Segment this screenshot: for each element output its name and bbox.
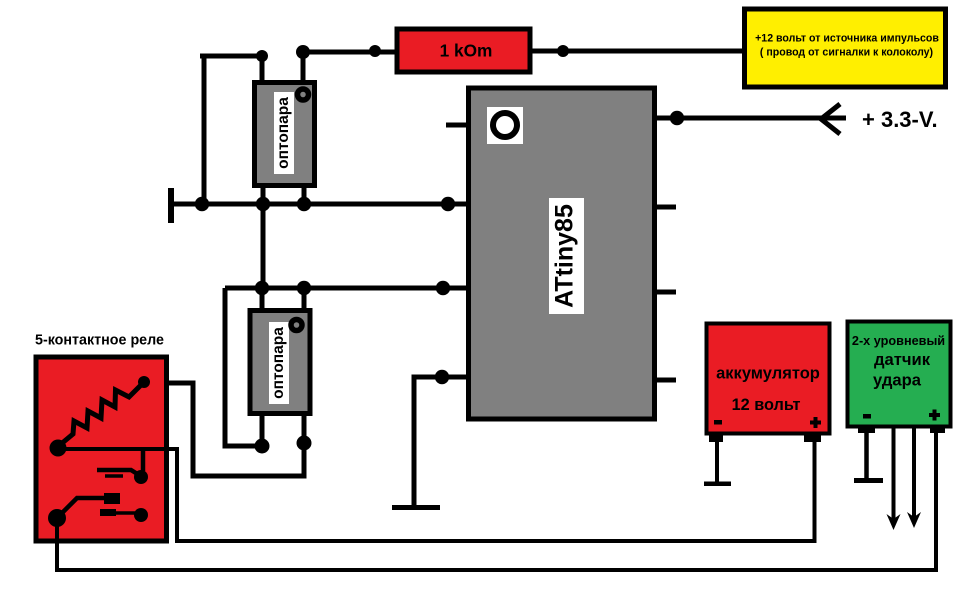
relay K1 body <box>36 357 167 541</box>
optocoupler U3 (bottom) <box>250 311 310 414</box>
wire ATtiny85 right pin 1 to +3.3V arrow <box>652 116 846 121</box>
relay contact arm 1 <box>97 470 139 475</box>
svg-text:12 вольт: 12 вольт <box>732 396 801 414</box>
ground bar below ATtiny85 <box>392 505 440 510</box>
node dot left of resistor R1 <box>369 45 381 57</box>
wire U-loop left of optocoupler U3 <box>225 288 262 446</box>
relay bottom-left terminal dot <box>48 509 66 527</box>
wire optocoupler U2 top-right pin <box>301 52 306 82</box>
svg-text:датчик: датчик <box>874 350 931 369</box>
wire optocoupler U2 top-left pin <box>260 56 265 82</box>
wire relay coil to optocoupler U3 bottom-right pin <box>146 383 304 476</box>
wire battery minus pin to ground <box>715 440 719 482</box>
wire resistor R1 right side to pulse-source box <box>530 49 744 54</box>
node dot rail y=288 at x=262 <box>255 281 269 295</box>
svg-text:удара: удара <box>873 371 922 390</box>
svg-text:2-х уровневый: 2-х уровневый <box>852 334 945 348</box>
wire horizontal rail y=288 to ATtiny85 pin <box>225 286 470 291</box>
resistor R1 1 kOm <box>397 29 530 72</box>
wire optocoupler U2 bottom-right pin <box>302 186 307 204</box>
pulse source box (+12V note) <box>745 9 946 87</box>
svg-text:ATtiny85: ATtiny85 <box>551 204 579 308</box>
node dot rail y=288 at x=304 <box>297 281 311 295</box>
wire relay bottom terminal to shock sensor plus <box>57 431 936 570</box>
ATtiny85 right pin 2 stub <box>652 205 676 210</box>
ATtiny85 right pin 3 stub <box>652 290 676 295</box>
svg-text:+12 вольт от источника импульс: +12 вольт от источника импульсов <box>755 33 939 45</box>
wire optocoupler U3 top-right pin <box>302 288 307 311</box>
node dot ATtiny85 left pin 4 <box>435 370 449 384</box>
node dot rail y=288 at ATtiny85 pin <box>436 281 450 295</box>
wire branch to relay contact arm 1 <box>141 450 146 471</box>
node dot rail y=204 at x=202 <box>195 197 209 211</box>
sensor output arrow 2 <box>912 427 916 519</box>
wire horizontal rail y=204 from ground bar to ATtiny85 pin <box>171 202 470 207</box>
shock sensor box <box>848 322 951 434</box>
relay coil bottom terminal dot <box>50 440 67 457</box>
relay contact arm 2 <box>63 498 106 512</box>
node dot top-right of U2 <box>296 45 310 59</box>
wire optocoupler U2 top-right pin to resistor R1 <box>303 50 397 55</box>
node dot U3 bottom-left pin <box>255 439 270 454</box>
relay coil zigzag <box>61 383 143 444</box>
svg-text:+ 3.3-V.: + 3.3-V. <box>862 107 938 132</box>
wire ATtiny85 left pin 4 to ground <box>414 377 470 507</box>
wire sensor minus pin to ground <box>864 433 869 478</box>
wire from top-left corner down to ground rail <box>200 54 262 59</box>
svg-text:1 kOm: 1 kOm <box>440 41 493 61</box>
svg-text:5-контактное реле: 5-контактное реле <box>35 333 164 349</box>
node dot rail y=204 at ATtiny85 pin <box>441 197 455 211</box>
ATtiny85 left pin 1 stub <box>446 123 470 128</box>
ground bar under sensor <box>854 478 883 483</box>
sensor output arrow 1 <box>892 427 896 521</box>
wire optocoupler U3 bottom-left pin <box>260 415 265 446</box>
ground bar under battery <box>704 482 731 487</box>
node dot top-left of U2 <box>256 50 268 62</box>
node dot ATtiny85 right pin 1 <box>670 111 684 125</box>
wire optocoupler U2 bottom-left pin down through rail to node row y=288 <box>261 186 266 288</box>
svg-text:( провод от сигналки к колокол: ( провод от сигналки к колоколу) <box>760 47 933 59</box>
wire optocoupler U3 top-left pin <box>260 288 265 311</box>
wire relay coil bottom terminal out to battery plus <box>58 437 815 541</box>
node dot U3 bottom-right pin <box>297 436 312 451</box>
node dot rail y=204 at x=304 <box>297 197 311 211</box>
svg-text:аккумулятор: аккумулятор <box>716 365 820 383</box>
IC U1 ATtiny85 <box>469 88 655 419</box>
ATtiny85 right pin 4 stub <box>652 378 676 383</box>
ground bar (left terminal of top rail) <box>168 188 174 223</box>
relay coil top terminal dot <box>138 376 150 388</box>
arrowhead +3.3V pointing left <box>821 104 840 134</box>
svg-text:оптопара: оптопара <box>270 327 287 399</box>
node dot rail y=204 at x=263 <box>256 197 270 211</box>
optocoupler U2 (top) <box>255 83 315 186</box>
svg-text:оптопара: оптопара <box>275 97 292 169</box>
node dot right of resistor R1 <box>557 45 569 57</box>
battery B1 12V <box>707 324 830 443</box>
